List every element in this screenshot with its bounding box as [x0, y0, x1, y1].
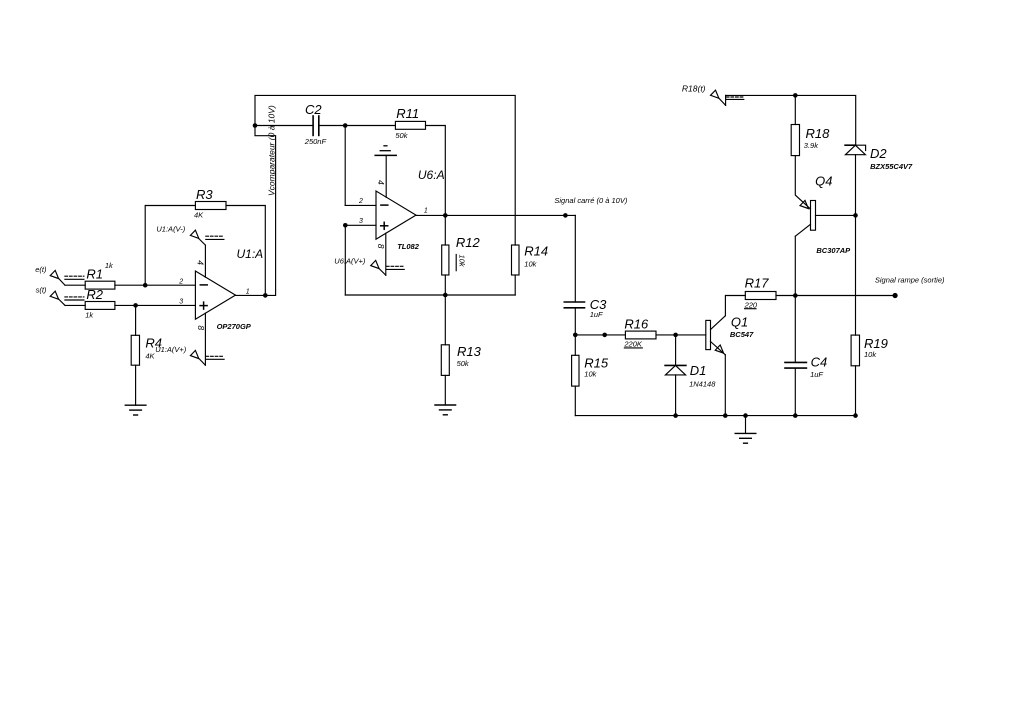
diode D1	[665, 364, 686, 366]
svg-text:R1: R1	[86, 266, 103, 281]
node Q1 emitter rail junction	[723, 413, 728, 418]
wire R16 to Q1 base	[656, 334, 706, 336]
svg-text:R3: R3	[196, 187, 213, 202]
wire R11 to feedback	[426, 126, 446, 216]
capacitor C2	[312, 116, 314, 135]
power bar symbol U6 pin4	[385, 155, 387, 197]
svg-text:U1:A(V-): U1:A(V-)	[156, 224, 185, 233]
node C3/R15/R16 junction	[573, 333, 578, 338]
resistor R19	[851, 335, 859, 366]
wire C4 bottom	[794, 368, 796, 416]
node output/R12 junction	[443, 213, 448, 218]
svg-text:R13: R13	[457, 344, 482, 359]
wire node to U1 pin3	[136, 304, 196, 306]
node R18 top junction	[793, 93, 798, 98]
svg-text:3: 3	[359, 218, 363, 225]
wire R2 to node pin3	[115, 304, 136, 306]
svg-text:C2: C2	[305, 102, 322, 117]
resistor R14	[512, 245, 520, 275]
svg-text:R16: R16	[624, 317, 649, 332]
svg-text:1: 1	[246, 289, 250, 296]
wire R12 bottom to R13	[444, 275, 446, 345]
wire node to R11	[345, 125, 395, 127]
wire Q4 collector down	[794, 236, 796, 295]
wire U6 pin3	[345, 224, 376, 226]
svg-text:50k: 50k	[457, 359, 470, 368]
wire output corner down to C3	[574, 215, 576, 302]
wire C2 left	[255, 125, 313, 127]
svg-text:Q1: Q1	[731, 315, 748, 330]
terminal e(t)	[50, 270, 58, 278]
svg-text:U1:A(V+): U1:A(V+)	[155, 345, 187, 354]
svg-text:2: 2	[178, 278, 183, 285]
ground below R13	[435, 404, 456, 406]
resistor R1	[85, 281, 115, 289]
wire R19 bottom	[855, 366, 857, 416]
node R2/R4 junction	[133, 303, 138, 308]
wire R13 to ground	[444, 375, 446, 405]
svg-text:s(t): s(t)	[36, 286, 47, 295]
svg-text:R18: R18	[806, 126, 831, 141]
svg-text:BC307AP: BC307AP	[816, 246, 851, 255]
node D1 bottom rail junction	[673, 413, 678, 418]
node C4 rail junction	[793, 413, 798, 418]
wire D2 bottom	[855, 155, 857, 216]
node C2/R11 junction	[343, 123, 348, 128]
svg-text:1uF: 1uF	[810, 370, 823, 379]
resistor R11	[395, 121, 425, 129]
op-amp U1:A	[195, 271, 235, 319]
svg-text:R18(t): R18(t)	[682, 84, 706, 94]
resistor R13	[441, 345, 449, 376]
node R19 rail junction	[853, 413, 858, 418]
wire node to U1 pin2	[145, 284, 195, 286]
svg-text:Q4: Q4	[815, 174, 832, 189]
svg-text:D1: D1	[690, 363, 707, 378]
svg-text:250nF: 250nF	[304, 137, 327, 146]
svg-text:10k: 10k	[457, 255, 466, 268]
wire U6 output	[416, 214, 575, 216]
diode D2 zener	[845, 144, 855, 146]
svg-text:4K: 4K	[194, 211, 204, 220]
wire R4 bottom	[135, 365, 137, 405]
svg-text:D2: D2	[870, 146, 887, 161]
wire R15 top	[574, 335, 576, 355]
transistor Q4	[811, 201, 816, 231]
node R12 bottom junction	[443, 293, 448, 298]
capacitor C4	[785, 361, 806, 363]
svg-text:4K: 4K	[145, 351, 155, 360]
wire ground stub	[745, 416, 747, 434]
wire e(t) to R1	[65, 284, 85, 286]
wire Q1 collector up	[725, 296, 745, 316]
wire R1 to node pin2	[115, 284, 145, 286]
wire R17 to output	[776, 295, 895, 297]
wire top rail left	[255, 95, 515, 245]
wire R3 feedback right	[226, 206, 265, 296]
svg-text:U6:A(V+): U6:A(V+)	[334, 257, 366, 266]
svg-text:Signal rampe (sortie): Signal rampe (sortie)	[875, 276, 945, 285]
node Q4 base/D2 junction	[853, 213, 858, 218]
ground bottom right	[735, 432, 756, 434]
svg-text:e(t): e(t)	[35, 265, 47, 274]
svg-text:8: 8	[196, 325, 206, 330]
power terminal U1:A(V+)	[204, 313, 206, 365]
terminal R18(t)	[711, 90, 719, 98]
wire node to R16	[575, 334, 625, 336]
svg-text:BC547: BC547	[730, 330, 754, 339]
svg-text:R17: R17	[745, 276, 770, 291]
svg-text:U1:A: U1:A	[237, 247, 264, 261]
node C2 left junction	[253, 123, 258, 128]
svg-text:4: 4	[376, 180, 386, 185]
svg-text:3: 3	[179, 298, 183, 305]
svg-text:C4: C4	[811, 355, 828, 370]
resistor R17	[745, 292, 776, 300]
svg-text:R12: R12	[456, 235, 481, 250]
svg-text:TL082: TL082	[397, 242, 420, 251]
capacitor C3	[564, 301, 584, 303]
wire U1 output	[236, 294, 266, 296]
svg-text:Vcomparateur (0 à 10V): Vcomparateur (0 à 10V)	[266, 105, 276, 196]
svg-text:50k: 50k	[395, 131, 408, 140]
wire pin3 node down	[344, 225, 346, 295]
node signal carre dot	[563, 213, 568, 218]
svg-text:R14: R14	[524, 244, 548, 259]
wire R12 leads	[444, 215, 446, 245]
wire output to C2 node	[255, 126, 276, 296]
wire bottom rail right	[575, 415, 855, 417]
power terminal U6:A(V+)	[385, 233, 387, 275]
svg-text:1k: 1k	[85, 310, 94, 319]
resistor R4	[131, 335, 139, 365]
node U1 output junction	[263, 293, 268, 298]
svg-text:U6:A: U6:A	[418, 168, 445, 182]
wire D1 top	[675, 335, 677, 366]
node signal rampe terminal	[893, 293, 898, 298]
transistor Q1	[706, 320, 711, 349]
wire R18 to Q4 emitter	[795, 156, 810, 209]
wire D2 node down to R19	[855, 215, 857, 335]
wire D1 bottom	[675, 375, 677, 416]
op-amp U6:A	[376, 191, 416, 239]
wire C3 to node	[574, 308, 576, 335]
svg-text:OP270GP: OP270GP	[217, 322, 252, 331]
wire R18 top	[794, 95, 796, 124]
ground below R4	[125, 404, 146, 406]
resistor R15	[572, 355, 579, 386]
wire bottom rail U6	[345, 294, 515, 296]
svg-text:3.9k: 3.9k	[804, 141, 819, 150]
resistor R18	[791, 125, 799, 156]
wire R3 feedback left	[145, 206, 195, 286]
svg-text:1N4148: 1N4148	[689, 380, 716, 389]
wire Q1 emitter down	[724, 355, 726, 416]
wire R14 bottom	[514, 275, 516, 295]
svg-text:R19: R19	[864, 336, 888, 351]
resistor R2	[85, 302, 115, 310]
power terminal U1:A(V-)	[204, 245, 206, 277]
svg-text:10k: 10k	[584, 370, 597, 379]
svg-text:220K: 220K	[623, 340, 643, 349]
svg-text:Signal carré (0 à 10V): Signal carré (0 à 10V)	[554, 196, 627, 205]
svg-text:8: 8	[376, 244, 386, 249]
svg-text:1uF: 1uF	[590, 310, 603, 319]
svg-text:R15: R15	[584, 356, 609, 371]
wire s(t) to R2	[65, 304, 85, 306]
node R1/R3 junction	[143, 283, 148, 288]
node R16/D1 junction	[673, 333, 678, 338]
svg-text:R2: R2	[86, 287, 103, 302]
wire C2 node down to pin2	[344, 126, 346, 206]
svg-text:2: 2	[358, 198, 363, 205]
node ground stub junction	[743, 413, 748, 418]
svg-text:1k: 1k	[105, 261, 114, 270]
wire C2 right	[319, 125, 345, 127]
wire Q4 collector to C4	[794, 296, 796, 363]
svg-text:4: 4	[195, 260, 205, 265]
wire U6 pin2	[345, 204, 376, 206]
terminal s(t)	[50, 291, 58, 299]
resistor R3	[195, 202, 226, 210]
svg-text:10k: 10k	[864, 350, 877, 359]
wire Q4 base	[816, 214, 856, 216]
wire R4 top	[135, 305, 137, 335]
node U6 pin3 junction	[343, 223, 348, 228]
resistor R16	[625, 331, 656, 339]
node wire dot	[602, 333, 607, 338]
svg-text:1: 1	[424, 207, 428, 214]
svg-text:BZX55C4V7: BZX55C4V7	[870, 162, 913, 171]
svg-text:R11: R11	[396, 106, 419, 121]
wire R15 bottom	[574, 386, 576, 416]
resistor R12	[442, 245, 449, 275]
svg-text:10k: 10k	[524, 260, 537, 269]
node R17/Q4/C4 junction	[793, 293, 798, 298]
wire top rail right	[726, 95, 856, 145]
